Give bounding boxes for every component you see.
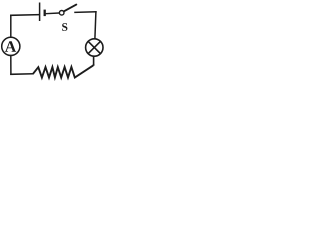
wire resistor to lamp	[93, 64, 95, 66]
wire top-left horizontal	[11, 14, 39, 17]
lamp X diagonal 2	[88, 41, 100, 53]
wire right vertical	[95, 12, 96, 39]
ammeter label A	[5, 41, 16, 52]
wire battery to switch	[46, 12, 60, 15]
resistor R1 zigzag	[33, 65, 93, 77]
wire ammeter bottom vertical	[10, 56, 12, 75]
lamp X diagonal 1	[88, 41, 100, 53]
wire top-left vertical	[10, 15, 12, 37]
battery long plate	[39, 3, 41, 22]
battery short plate	[44, 10, 46, 17]
ammeter A1 circle	[2, 37, 20, 55]
switch label S	[62, 23, 67, 31]
wire lamp bottom stub	[93, 56, 95, 65]
switch S blade	[64, 5, 76, 12]
switch S pivot circle	[59, 11, 64, 16]
lamp circle	[86, 39, 103, 56]
wire switch to top-right corner	[75, 11, 96, 14]
wire bottom horizontal	[11, 73, 33, 76]
